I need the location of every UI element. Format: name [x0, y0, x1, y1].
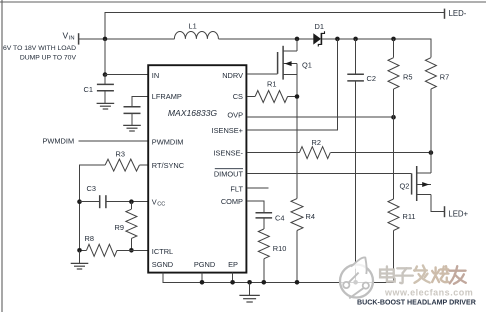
diode D1 (schottky) [313, 22, 324, 47]
svg-text:R11: R11 [403, 212, 416, 221]
node C2 junction [353, 37, 358, 42]
watermark logo circle [340, 257, 373, 298]
svg-text:DIMOUT: DIMOUT [214, 170, 244, 179]
svg-text:C3: C3 [87, 184, 96, 193]
wire PGND drop [201, 273, 203, 283]
pin ISENSE- [213, 148, 243, 157]
resistor R1 [247, 80, 297, 103]
node R8 left junction [77, 248, 82, 253]
svg-text:LED-: LED- [449, 9, 467, 18]
svg-text:C1: C1 [84, 85, 93, 94]
pin OVP [227, 111, 243, 120]
terminal LED- [445, 9, 467, 19]
resistor R3 [105, 150, 148, 172]
svg-text:C4: C4 [275, 213, 284, 222]
svg-text:PGND: PGND [194, 260, 215, 269]
svg-text:OVP: OVP [227, 111, 243, 120]
transistor Q1 N-channel MOSFET [278, 39, 312, 80]
svg-text:R5: R5 [403, 72, 412, 81]
ground left rail [71, 250, 89, 269]
pin RT/SYNC [152, 161, 185, 170]
ground main [239, 282, 259, 302]
capacitor C1 [84, 75, 114, 103]
wire Q2 source to LED+ [431, 195, 445, 212]
wire COMP to C4 [247, 201, 264, 212]
node R9 bottom junction [129, 248, 134, 253]
resistor R8 [80, 234, 148, 256]
node OVP divider tap [391, 115, 396, 120]
terminal V_IN [63, 31, 79, 45]
pin ISENSE+ [212, 126, 243, 135]
annotation input voltage range [3, 45, 76, 61]
node C3 left junction [77, 199, 82, 204]
node PGND junction [200, 280, 205, 285]
node R10 bottom junction [262, 280, 267, 285]
resistor R11 [388, 117, 416, 282]
svg-text:IN: IN [152, 71, 159, 80]
wire LFRAMP pin to bypass capacitor [132, 96, 148, 106]
terminal LED+ [445, 206, 469, 218]
capacitor C4 [256, 213, 285, 223]
svg-text:V: V [152, 197, 157, 206]
svg-text:PWMDIM: PWMDIM [152, 137, 184, 146]
node C2 bottom junction [353, 280, 358, 285]
transistor Q2 P-channel MOSFET [400, 153, 431, 201]
resistor R10 [258, 218, 286, 282]
resistor R5 [388, 39, 412, 117]
wire R3 to left ground rail [80, 165, 106, 250]
svg-text:BUCK-BOOST HEADLAMP DRIVER: BUCK-BOOST HEADLAMP DRIVER [357, 299, 476, 307]
pin FLT [230, 184, 243, 193]
svg-text:6V TO 18V WITH LOAD: 6V TO 18V WITH LOAD [3, 45, 76, 52]
wire SGND to ground rail [163, 273, 394, 283]
op-amp U1 MAX16833G IC body [148, 65, 246, 272]
svg-text:R4: R4 [306, 212, 315, 221]
svg-text:R7: R7 [440, 72, 449, 81]
wire ISENSE+ to output rail [247, 39, 338, 130]
pin SGND [152, 260, 173, 269]
wire PWMDIM input to PWMDIM pin [79, 140, 148, 142]
svg-text:LED+: LED+ [448, 209, 468, 218]
terminal PWMDIM input [43, 136, 75, 145]
svg-text:www.elecfans.com: www.elecfans.com [384, 287, 473, 297]
wire L1 to D1 anode [218, 38, 313, 40]
svg-text:COMP: COMP [221, 197, 243, 206]
svg-text:ISENSE+: ISENSE+ [212, 126, 243, 135]
pin COMP [221, 197, 243, 206]
ground under C1 [97, 103, 115, 109]
svg-text:NDRV: NDRV [222, 71, 243, 80]
title caption [357, 299, 476, 307]
wire DIMOUT to Q2 gate [247, 172, 412, 174]
svg-text:PWMDIM: PWMDIM [43, 136, 75, 145]
wire FLT stub [247, 187, 269, 189]
svg-text:L1: L1 [189, 22, 197, 31]
svg-text:SGND: SGND [152, 260, 173, 269]
pin ICTRL [152, 247, 173, 256]
wire EP drop [232, 273, 234, 283]
svg-text:Q1: Q1 [302, 60, 312, 69]
svg-text:RT/SYNC: RT/SYNC [152, 161, 185, 170]
svg-text:R1: R1 [267, 80, 276, 89]
svg-text:FLT: FLT [230, 184, 243, 193]
node VCC junction [129, 199, 134, 204]
wire Q1 source down to sense node [296, 64, 298, 199]
node ISENSE+ junction [335, 37, 340, 42]
node R4 bottom junction [295, 280, 300, 285]
wire OVP to divider tap [247, 116, 394, 118]
pin CS [233, 92, 243, 101]
svg-text:EP: EP [228, 260, 238, 269]
pin PWMDIM [152, 137, 184, 146]
svg-text:R8: R8 [85, 234, 94, 243]
wire VIN junction down to IN pin [104, 39, 106, 75]
wire D1 cathode output rail to R7 top [322, 39, 431, 58]
pin DIMOUT (active low) [214, 169, 244, 179]
node R2 to R7/Q2 drain junction [429, 150, 434, 155]
wire IN junction to IN pin [105, 74, 148, 76]
pin VCC [152, 197, 165, 207]
node ground stem junction [247, 280, 252, 285]
wire VIN terminal to L1 [79, 38, 174, 40]
svg-text:DUMP UP TO 70V: DUMP UP TO 70V [20, 54, 77, 61]
pin LFRAMP [152, 92, 182, 101]
watermark text elecfans [380, 265, 466, 283]
svg-text:ISENSE-: ISENSE- [213, 148, 243, 157]
svg-text:IN: IN [69, 36, 75, 42]
capacitor C3 [80, 184, 148, 208]
resistor R2 [247, 138, 431, 159]
pin PGND [194, 260, 215, 269]
pin NDRV [222, 71, 243, 80]
svg-text:Q2: Q2 [400, 181, 410, 190]
svg-text:D1: D1 [315, 22, 324, 31]
resistor R4 [291, 199, 315, 283]
resistor R7 [425, 58, 449, 153]
ground under LFRAMP capacitor [123, 125, 141, 131]
svg-text:V: V [63, 31, 69, 41]
svg-text:R9: R9 [115, 223, 124, 232]
node R1 junction on Q1 source line [295, 94, 300, 99]
wire NDRV to Q1 gate [247, 73, 278, 75]
pin IN [152, 71, 159, 80]
inductor L1 [174, 22, 218, 39]
node VIN junction [103, 37, 108, 42]
svg-text:R3: R3 [116, 150, 125, 159]
svg-text:CS: CS [233, 92, 243, 101]
svg-text:MAX16833G: MAX16833G [168, 108, 218, 118]
svg-text:CC: CC [157, 201, 165, 207]
svg-text:R10: R10 [273, 244, 287, 253]
pin EP [228, 260, 238, 269]
node Q1 drain junction [295, 37, 300, 42]
node IN junction [103, 72, 108, 77]
wire top rail VIN to LED- [105, 13, 445, 39]
capacitor on LFRAMP [124, 107, 141, 125]
watermark url [384, 287, 473, 297]
node R5 junction [391, 37, 396, 42]
svg-text:ICTRL: ICTRL [152, 247, 173, 256]
svg-text:LFRAMP: LFRAMP [152, 92, 182, 101]
svg-text:C2: C2 [367, 74, 376, 83]
resistor R9 [115, 202, 137, 251]
svg-text:R2: R2 [312, 138, 321, 147]
capacitor C2 [347, 39, 376, 282]
node EP junction [230, 280, 235, 285]
